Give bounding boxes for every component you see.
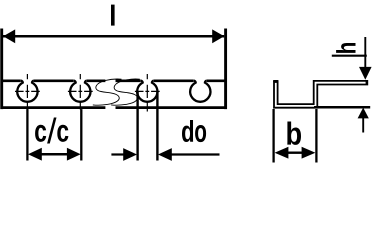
- centerline cross slot 3: [135, 74, 160, 112]
- label b: [287, 122, 301, 145]
- dimension l left arrowhead: [3, 29, 15, 43]
- do extension line right: [156, 92, 158, 161]
- keyhole slot 3: [137, 81, 157, 102]
- c/c left arrowhead: [28, 148, 42, 161]
- b extension line left: [272, 109, 274, 163]
- bar top edge segments: [1, 80, 227, 83]
- break squiggle line A: [93, 79, 122, 105]
- h dimension up arrow tail: [362, 118, 364, 133]
- break squiggle line B: [111, 79, 140, 105]
- keyhole slot 4: [190, 81, 210, 102]
- bar left edge / extension line for l: [0, 29, 3, 110]
- do extension line left: [136, 92, 138, 161]
- c/c dimension line: [40, 153, 69, 156]
- label h (rotated): [336, 43, 355, 53]
- do right arrowhead: [158, 148, 172, 161]
- do left arrow tail: [111, 153, 124, 155]
- h dimension down arrowhead: [359, 67, 372, 80]
- bar right edge / extension line for l: [224, 29, 227, 110]
- do right arrow tail: [171, 153, 220, 155]
- keyhole slot 1: [17, 81, 37, 102]
- b dimension line: [287, 151, 303, 153]
- cross-section sheet inner white: [276, 83, 366, 106]
- keyhole slot 2: [70, 81, 90, 102]
- label c/c: [35, 125, 46, 142]
- label do: [182, 120, 193, 142]
- centerline cross slot 2: [68, 74, 93, 110]
- label l: [111, 5, 115, 26]
- h dimension up arrowhead: [358, 108, 369, 119]
- dimension l line: [3, 35, 224, 38]
- b right arrowhead: [302, 147, 316, 159]
- left wall top cap: [273, 80, 278, 82]
- h bottom reference line: [314, 106, 370, 109]
- centerline cross slot 1: [15, 74, 40, 110]
- c/c extension line left: [26, 109, 28, 160]
- c/c extension line right: [80, 109, 82, 160]
- c/c right arrowhead: [67, 148, 81, 161]
- h label leader line: [332, 55, 367, 57]
- cross-section sheet profile: [276, 81, 368, 106]
- b extension line right: [315, 109, 317, 163]
- do left arrowhead: [123, 148, 137, 161]
- b left arrowhead: [275, 147, 289, 159]
- bar bottom edge segments: [1, 106, 227, 109]
- dimension l right arrowhead: [212, 29, 224, 43]
- h dimension down arrow tail: [364, 37, 366, 68]
